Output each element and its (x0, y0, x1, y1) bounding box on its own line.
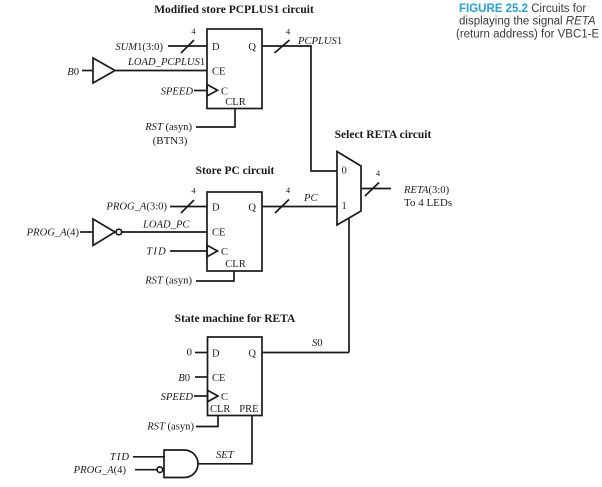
wire: RST to U1 CLR (196, 109, 235, 127)
svg-text:LOAD_PC: LOAD_PC (142, 220, 190, 231)
wire: RST to U2 CLR (196, 271, 234, 281)
wire: B0 to buffer (82, 70, 93, 72)
svg-text:4: 4 (286, 27, 291, 37)
svg-text:1: 1 (342, 201, 347, 212)
svg-text:(BTN3): (BTN3) (153, 135, 188, 147)
wire: TID to G1 (133, 456, 165, 458)
svg-text:Modified store PCPLUS1 circuit: Modified store PCPLUS1 circuit (154, 4, 314, 16)
svg-text:PC: PC (303, 193, 318, 204)
svg-text:PCPLUS1: PCPLUS1 (297, 36, 342, 47)
wire: SPEED to U1 C (194, 90, 207, 92)
bus slash (PC) (275, 200, 289, 214)
svg-text:PROG_A(4): PROG_A(4) (73, 465, 127, 476)
svg-text:D: D (212, 42, 220, 53)
svg-text:SUM1(3:0): SUM1(3:0) (115, 42, 163, 53)
svg-text:displaying the signal RETA: displaying the signal RETA (459, 16, 596, 28)
wire: buffer to U1 CE (115, 70, 207, 72)
svg-text:C: C (221, 87, 228, 98)
svg-text:Select RETA circuit: Select RETA circuit (335, 129, 432, 141)
svg-text:RETA(3:0): RETA(3:0) (403, 185, 450, 196)
AND gate G1 (164, 450, 198, 478)
flip-flop U1 (207, 29, 262, 109)
mux U6 (337, 152, 361, 226)
svg-text:To 4 LEDs: To 4 LEDs (404, 197, 452, 209)
wire: AND output SET to U3 PRE (198, 415, 252, 464)
svg-text:SPEED: SPEED (161, 392, 194, 403)
svg-text:C: C (221, 392, 228, 403)
svg-text:State machine for RETA: State machine for RETA (175, 313, 296, 325)
svg-text:SPEED: SPEED (161, 87, 194, 98)
svg-text:LOAD_PCPLUS1: LOAD_PCPLUS1 (127, 57, 205, 68)
svg-text:CE: CE (212, 373, 225, 384)
svg-text:CE: CE (212, 67, 225, 78)
wire: PROG_A(4) to G1 bubble (135, 469, 157, 471)
wire: RST to U3 CLR (196, 415, 218, 427)
wire: TID to U2 C (170, 250, 207, 252)
svg-text:Q: Q (248, 203, 256, 214)
svg-text:PRE: PRE (239, 404, 258, 415)
svg-text:C: C (221, 247, 228, 258)
svg-text:CLR: CLR (210, 404, 230, 415)
svg-text:Q: Q (248, 42, 256, 53)
svg-text:CLR: CLR (225, 97, 245, 108)
figure caption (456, 3, 599, 41)
wire: SUM1 bus to U1 D (168, 40, 207, 53)
svg-text:RST (asyn): RST (asyn) (144, 276, 192, 287)
buffer U4 (93, 58, 115, 83)
wire: U2 Q to mux input 1 (262, 206, 337, 208)
flip-flop U3 (208, 337, 263, 416)
wire: 0 to U3 D (195, 352, 208, 354)
wire: inverter to U2 CE (122, 231, 207, 233)
svg-text:Store PC circuit: Store PC circuit (196, 165, 275, 177)
svg-text:FIGURE 25.2 Circuits for: FIGURE 25.2 Circuits for (459, 3, 586, 15)
wire: mux output RETA (361, 188, 391, 190)
wire: PROG_A bus to U2 D (170, 200, 207, 213)
svg-text:B0: B0 (178, 373, 190, 384)
svg-text:Q: Q (248, 349, 256, 360)
svg-text:PROG_A(3:0): PROG_A(3:0) (105, 202, 167, 213)
wire: mux select from S0 (348, 218, 350, 353)
svg-text:4: 4 (376, 168, 381, 178)
svg-text:PROG_A(4): PROG_A(4) (26, 228, 80, 239)
svg-text:TID: TID (110, 452, 130, 463)
flip-flop U2 (207, 192, 262, 271)
svg-text:0: 0 (187, 347, 193, 359)
svg-text:RST (asyn): RST (asyn) (144, 122, 192, 133)
svg-text:S0: S0 (312, 338, 323, 349)
wire: U1 Q to mux input 0 (262, 46, 337, 171)
svg-text:(return address) for VBC1-E: (return address) for VBC1-E (456, 29, 599, 41)
svg-text:4: 4 (191, 186, 196, 196)
svg-text:4: 4 (286, 185, 291, 195)
svg-text:0: 0 (342, 166, 347, 177)
svg-text:CE: CE (212, 228, 225, 239)
svg-text:D: D (212, 203, 220, 214)
wire: U3 Q to mux select (S0) (262, 352, 349, 354)
bus slash (PCPLUS1) (275, 40, 290, 53)
svg-text:4: 4 (191, 26, 196, 36)
svg-text:B0: B0 (67, 67, 79, 78)
svg-text:TID: TID (146, 247, 167, 258)
wire: B0 to U3 CE (195, 376, 208, 378)
inverter bubble (G1 input) (157, 467, 163, 473)
wire: PROG_A(4) to inverter (80, 231, 93, 233)
svg-text:CLR: CLR (225, 259, 245, 270)
bus slash (RETA) (365, 183, 379, 197)
wire: SPEED to U3 C (194, 395, 208, 397)
svg-text:D: D (212, 349, 220, 360)
inverter U5 (93, 219, 122, 246)
svg-text:SET: SET (216, 450, 235, 461)
svg-text:RST (asyn): RST (asyn) (146, 422, 194, 433)
